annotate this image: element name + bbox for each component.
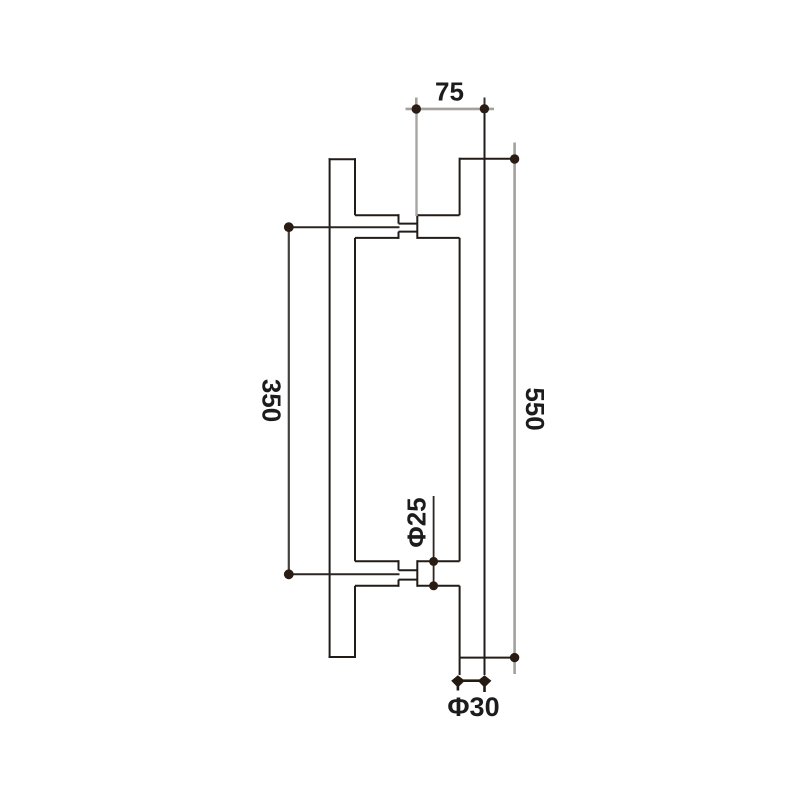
- bottom neck top edge: [399, 569, 418, 571]
- dimension 550 top dot: [510, 154, 519, 163]
- svg-text:75: 75: [435, 77, 464, 107]
- left handle tube outline: [329, 158, 356, 658]
- left tube left edge: [329, 158, 331, 658]
- left tube top edge: [329, 158, 356, 160]
- svg-text:550: 550: [520, 387, 550, 430]
- bottom flange right edge lower: [398, 580, 400, 587]
- bottom flange bottom edge: [355, 585, 399, 587]
- bottom post neck: [399, 570, 418, 579]
- dimension 75 line: [406, 108, 495, 111]
- dimension 75 right dot: [480, 104, 489, 113]
- bottom flange top edge: [355, 560, 399, 562]
- top right flange bottom edge: [417, 237, 459, 239]
- top flange right edge lower: [398, 232, 400, 239]
- top flange bottom edge: [355, 237, 399, 239]
- right tube bottom edge with 550 extension: [460, 657, 511, 659]
- dimension 350 bottom dot: [284, 569, 294, 579]
- dimension 75 left stub above: [415, 98, 418, 110]
- top post neck: [399, 224, 418, 232]
- top neck top edge: [399, 223, 418, 225]
- top flange right edge upper: [398, 214, 400, 223]
- right tube left edge middle segment: [459, 238, 461, 561]
- dimension dia25 top dot: [429, 557, 438, 566]
- dimension dia30 line: [460, 679, 485, 682]
- top post right flange: [417, 214, 459, 239]
- bottom post right flange: [417, 560, 459, 587]
- top post left flange: [355, 214, 399, 239]
- top right flange left edge: [416, 214, 418, 239]
- left tube bottom edge: [329, 656, 356, 658]
- svg-text:350: 350: [257, 379, 287, 422]
- dimension dia25 line: [433, 496, 435, 586]
- bottom post left flange: [355, 560, 399, 587]
- bottom right flange top edge: [417, 560, 459, 562]
- dimension 550 bottom dot: [510, 653, 519, 662]
- dimension 75 right stub above: [484, 98, 486, 110]
- dimension 350 top extension line: [289, 226, 400, 228]
- right tube right edge with 75 and dia30 extensions: [484, 99, 486, 675]
- dimension 350 line: [288, 227, 290, 574]
- right handle tube outline: [460, 99, 511, 675]
- dimension 350 bottom extension line: [289, 573, 400, 575]
- svg-text:Φ25: Φ25: [401, 497, 431, 547]
- top right flange top edge: [417, 214, 459, 216]
- right tube left edge upper segment: [459, 158, 461, 216]
- left tube right edge middle segment: [354, 238, 356, 561]
- top neck bottom edge: [399, 231, 418, 233]
- bottom right flange bottom edge: [417, 585, 459, 587]
- dimension dia30 left diamond arrow: [451, 675, 465, 690]
- dimension 550 line: [513, 143, 516, 675]
- dimension dia30 right diamond arrow: [478, 675, 492, 692]
- right tube left edge lower segment: [459, 586, 461, 658]
- left tube right edge upper segment: [354, 158, 356, 215]
- bottom neck bottom edge: [399, 579, 418, 581]
- right tube left edge dia30 extension: [459, 658, 461, 675]
- dimension 350 top dot: [284, 222, 294, 232]
- dimension 75 left extension line down to post: [415, 109, 417, 216]
- bottom right flange left edge: [416, 560, 418, 587]
- svg-text:Φ30: Φ30: [447, 692, 499, 722]
- dimension dia25 bottom dot: [429, 581, 438, 590]
- right tube top edge with 550 extension: [460, 158, 511, 160]
- left tube right edge lower segment: [354, 586, 356, 658]
- dimension 75 left dot: [412, 104, 421, 113]
- bottom flange right edge upper: [398, 560, 400, 570]
- top flange top edge: [355, 214, 399, 216]
